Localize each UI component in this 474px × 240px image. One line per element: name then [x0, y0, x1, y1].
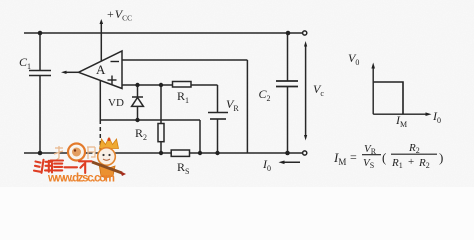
battery VR reference source — [208, 85, 228, 153]
wire inverting input to sense node — [122, 60, 247, 153]
arrow I0 current direction — [279, 161, 301, 165]
wire top rail to output terminal — [288, 32, 303, 34]
op-amp input polarity signs — [108, 62, 120, 85]
graph V0 vs I0 characteristic — [371, 63, 431, 117]
watermark mascot — [92, 138, 126, 178]
formula IM = VR/VS (R2/(R1+R2)) — [333, 142, 443, 170]
wire non-inverting input bus — [122, 84, 173, 86]
watermark outlined text zhao xin pian — [54, 146, 95, 161]
capacitor C1 — [29, 33, 51, 153]
paper noise overlay — [0, 0, 1, 1]
watermark dzsc logo — [34, 138, 126, 185]
wire bottom return rail left of RS — [24, 152, 171, 154]
diode VD — [132, 85, 144, 120]
wire op-amp V- pin down — [99, 81, 101, 121]
wire bottom rail to output terminal — [287, 152, 303, 154]
resistor RS — [171, 150, 189, 156]
resistor R1 — [173, 82, 218, 88]
op-amp output wire with arrow — [61, 71, 79, 74]
resistor R2 — [158, 85, 164, 153]
capacitor C2 — [276, 33, 298, 153]
wire bottom return rail right of RS — [190, 152, 288, 154]
watermark badge circle — [68, 144, 85, 161]
arrow Vc voltage dimension — [304, 41, 307, 141]
op-amp U A triangle — [79, 51, 123, 89]
watermark text weiku yixia — [34, 160, 92, 173]
wire reference common node — [100, 120, 200, 153]
terminal top output circle — [303, 31, 307, 35]
node junction dots — [38, 31, 291, 156]
wire dashed from V- pin node to bottom rail — [99, 120, 101, 153]
wire top supply rail — [24, 32, 288, 34]
terminal bottom output circle — [303, 151, 307, 155]
wire +Vcc supply to op-amp — [100, 19, 104, 61]
